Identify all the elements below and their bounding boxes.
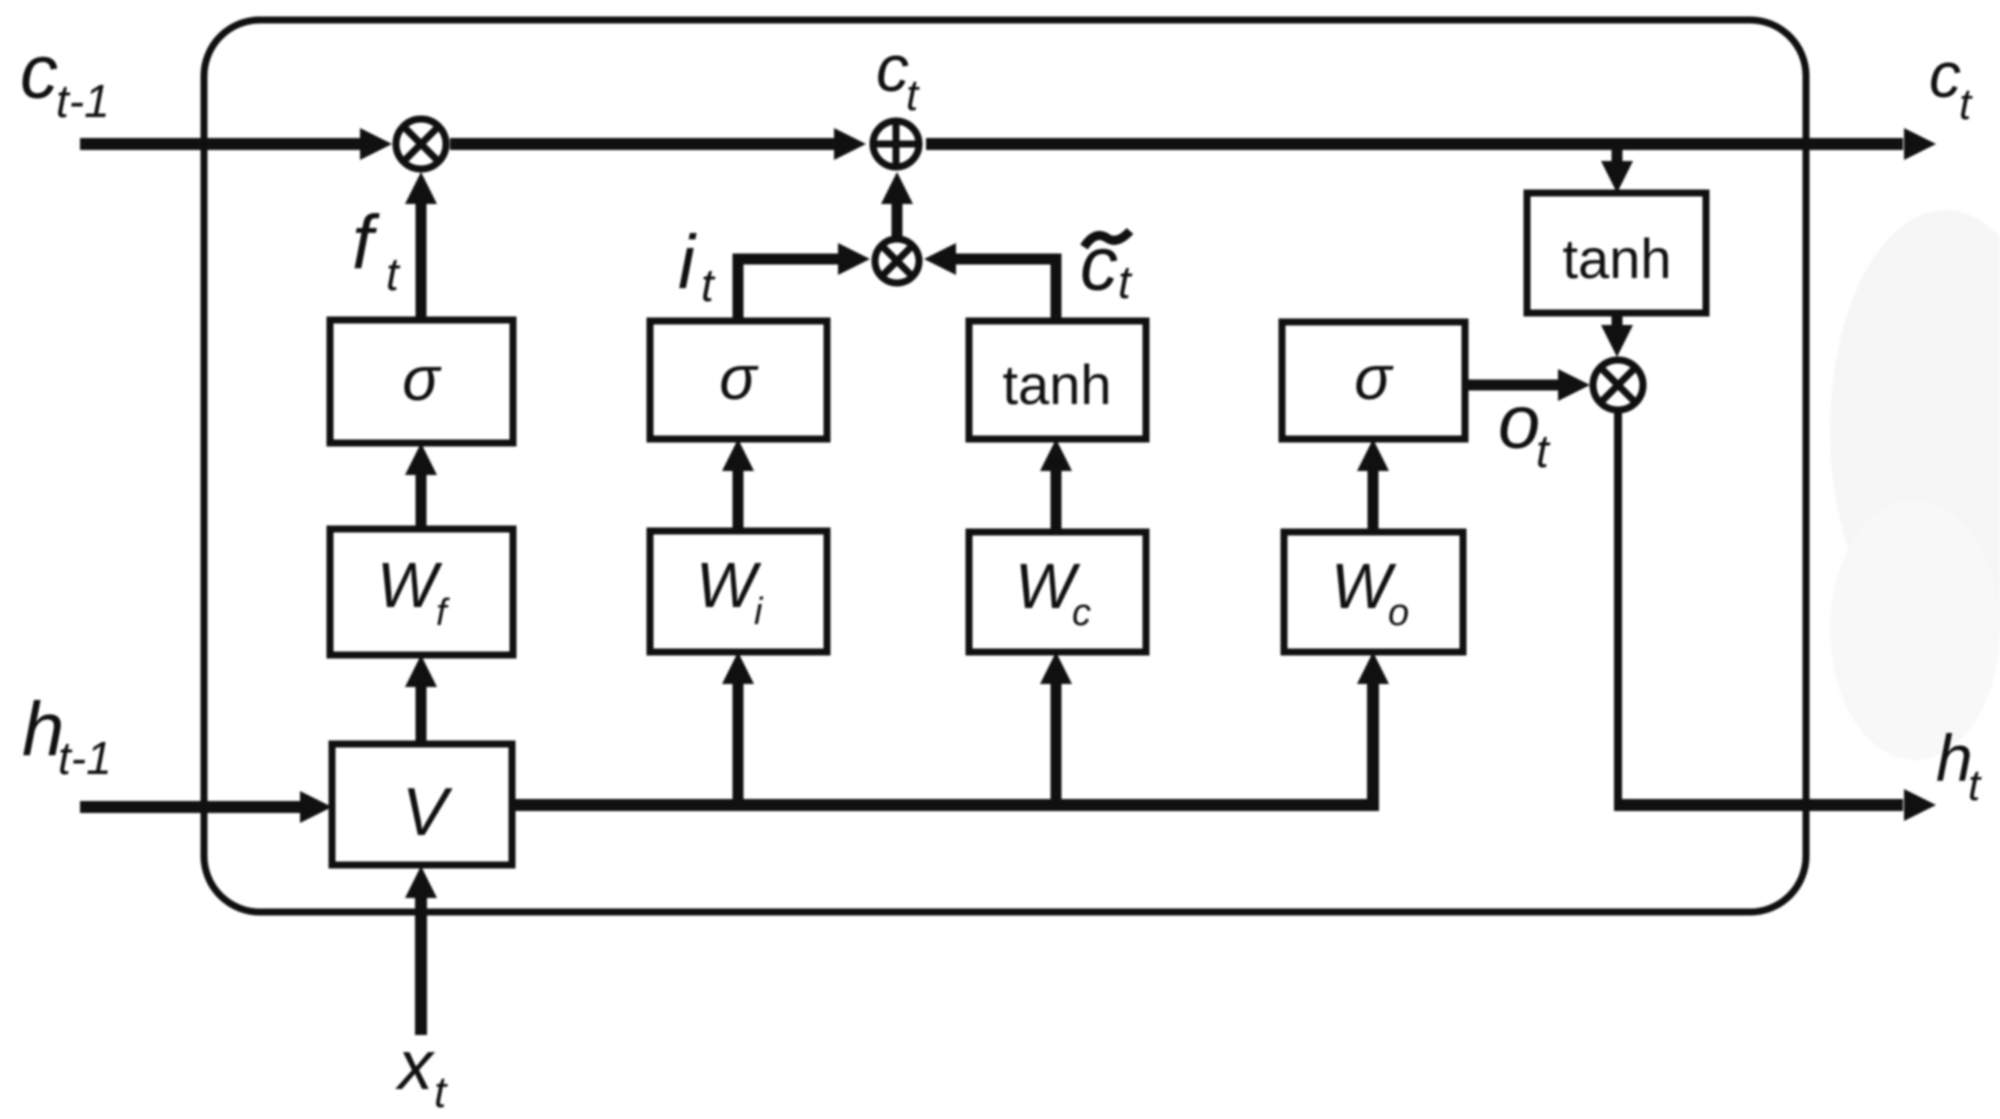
- svg-text:o: o: [1388, 592, 1409, 634]
- wire: arrow V to Wf: [416, 687, 427, 744]
- wire: arrow from multiply(i,c) up into add node: [892, 202, 903, 236]
- svg-text:c: c: [1072, 592, 1091, 634]
- svg-text:t: t: [386, 248, 401, 300]
- svg-text:t: t: [1968, 761, 1982, 810]
- svg-text:t: t: [1959, 80, 1973, 129]
- svg-text:tanh: tanh: [1563, 227, 1672, 290]
- svg-text:t: t: [434, 1068, 448, 1117]
- Wo box: [1284, 532, 1463, 652]
- wire: branch up into Wc: [1051, 684, 1062, 805]
- tanh box (candidate): [969, 321, 1146, 439]
- Wc box: [969, 532, 1146, 652]
- sigma box (input gate): [650, 321, 827, 439]
- wire: branch up into Wi: [733, 684, 744, 805]
- wire: down arrow from main line into tanh (output path): [1612, 150, 1623, 165]
- wire: output multiply down to h(t) line: [1614, 411, 1622, 801]
- svg-text:o: o: [1498, 380, 1540, 465]
- wire: arrow Wi to sigma2: [733, 471, 744, 531]
- wire: cell-state main line c(t-1) to multiply node: [80, 138, 364, 150]
- svg-text:x: x: [395, 1026, 436, 1104]
- svg-text:f: f: [352, 200, 380, 285]
- svg-text:c: c: [876, 31, 909, 105]
- tanh box (output, top right): [1527, 193, 1706, 313]
- wire: hidden bus from V right to Wo column: [512, 684, 1373, 805]
- wire: i(t) path from sigma box 2 up and right into multiply: [738, 259, 838, 322]
- svg-text:t: t: [906, 71, 920, 120]
- svg-text:t-1: t-1: [58, 732, 112, 784]
- svg-text:σ: σ: [1354, 344, 1394, 413]
- svg-text:W: W: [696, 549, 762, 621]
- wire: multiply node to add node: [450, 138, 840, 150]
- svg-text:W: W: [377, 549, 443, 621]
- svg-text:tanh: tanh: [1003, 353, 1112, 416]
- add node (cell state sum): [873, 121, 919, 167]
- svg-text:t: t: [1536, 425, 1551, 477]
- LSTM cell boundary (rounded rectangle): [204, 20, 1806, 912]
- V box: [332, 744, 512, 865]
- wire: f(t) arrow from sigma box up to forget multiply: [416, 202, 427, 320]
- multiply node (output): [1593, 360, 1643, 410]
- sigma box (output gate): [1282, 322, 1465, 439]
- svg-text:σ: σ: [402, 345, 442, 414]
- svg-text:t: t: [1118, 256, 1133, 308]
- Wf box: [330, 529, 513, 655]
- multiply node (forget gate): [396, 119, 446, 169]
- multiply node (input gate x candidate): [875, 239, 919, 283]
- svg-text:V: V: [402, 774, 453, 850]
- wire: arrow Wo to sigma3: [1368, 471, 1379, 532]
- wire: arrow Wc to tanh: [1051, 471, 1062, 532]
- svg-text:i: i: [678, 220, 697, 305]
- sigma box (forget gate): [330, 320, 513, 443]
- Wi box: [650, 531, 827, 652]
- svg-text:t-1: t-1: [56, 75, 110, 127]
- wire: o(t) arrow from sigma3 to output multiply: [1465, 380, 1558, 391]
- svg-text:c: c: [1929, 39, 1961, 111]
- wire: c-tilde path from tanh box up and left into multiply: [956, 259, 1056, 322]
- svg-text:σ: σ: [719, 344, 759, 413]
- wire: h(t) output arrow: [1614, 799, 1903, 811]
- wire: arrow Wf to sigma1: [416, 475, 427, 529]
- wire: h(t-1) input arrow into V: [80, 801, 300, 813]
- wire: add node to c(t) output arrow: [926, 138, 1903, 150]
- svg-text:t: t: [701, 259, 716, 311]
- svg-text:c: c: [20, 30, 58, 115]
- faint scan smudge right margin: [1830, 210, 2000, 650]
- wire: arrow tanh down to output multiply: [1612, 313, 1623, 330]
- wire: x(t) input arrow up into V: [415, 898, 427, 1035]
